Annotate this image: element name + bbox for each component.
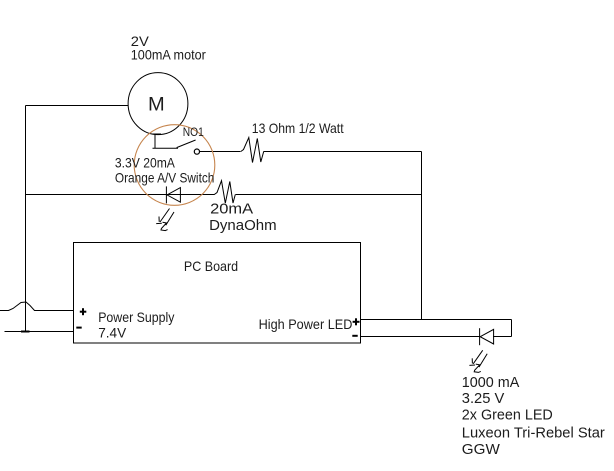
LED D2 high power Luxeon xyxy=(469,328,493,372)
svg-text:3.25 V: 3.25 V xyxy=(462,390,505,407)
pin: minus sign high power LED output xyxy=(352,335,357,337)
svg-text:Luxeon Tri-Rebel Star: Luxeon Tri-Rebel Star xyxy=(462,424,605,441)
svg-text:DynaOhm: DynaOhm xyxy=(209,217,277,234)
PC board box xyxy=(74,243,361,344)
annotation: orange highlight circle around switch xyxy=(134,125,215,206)
wire: right vertical bus xyxy=(421,152,423,320)
svg-text:High Power LED: High Power LED xyxy=(259,316,353,332)
wire: high power LED minus wire right segment xyxy=(493,336,512,338)
wire: supply minus from left to PC board xyxy=(5,331,74,333)
pin: plus sign power supply input xyxy=(80,308,87,315)
resistor R1 13 Ohm zigzag xyxy=(241,138,264,163)
node: junction of left vertical bus with minus wire xyxy=(21,331,30,333)
wire: right end vertical drop xyxy=(511,320,513,337)
wire: supply plus from left edge to PC board with hop over vertical xyxy=(0,302,74,311)
svg-text:7.4V: 7.4V xyxy=(98,324,127,340)
motor M1 circle xyxy=(128,73,188,135)
svg-text:Power Supply: Power Supply xyxy=(98,309,174,325)
wire: switch to resistor R1 xyxy=(200,151,241,153)
wire: left vertical bus xyxy=(25,106,27,332)
LED D1 orange A/V xyxy=(156,186,180,230)
svg-text:M: M xyxy=(148,94,165,116)
svg-text:100mA motor: 100mA motor xyxy=(131,46,206,62)
svg-text:20mA: 20mA xyxy=(210,201,253,218)
svg-text:3.3V 20mA: 3.3V 20mA xyxy=(115,154,176,170)
svg-text:Orange A/V Switch: Orange A/V Switch xyxy=(115,169,214,185)
wire: LED branch horizontal left segment xyxy=(26,194,215,196)
wire: high power LED minus wire left segment xyxy=(361,336,480,338)
svg-text:1000 mA: 1000 mA xyxy=(462,374,520,391)
pin: plus sign high power LED output xyxy=(353,318,360,325)
svg-text:GGW: GGW xyxy=(462,441,501,458)
wire: resistor R1 to right vertical xyxy=(264,151,422,153)
wire: LED branch horizontal right segment xyxy=(236,194,422,196)
pin: minus sign power supply input xyxy=(76,327,81,329)
svg-text:2x Green LED: 2x Green LED xyxy=(462,406,553,423)
switch S1 NO1 pole and blade xyxy=(153,134,200,155)
wire: high power LED plus wire xyxy=(361,319,512,321)
svg-text:PC Board: PC Board xyxy=(184,258,238,274)
svg-text:NO1: NO1 xyxy=(183,127,204,139)
wire: top horizontal to motor xyxy=(26,105,129,107)
resistor R2 DynaOhm zigzag xyxy=(214,181,235,204)
svg-text:13 Ohm 1/2 Watt: 13 Ohm 1/2 Watt xyxy=(252,120,344,136)
